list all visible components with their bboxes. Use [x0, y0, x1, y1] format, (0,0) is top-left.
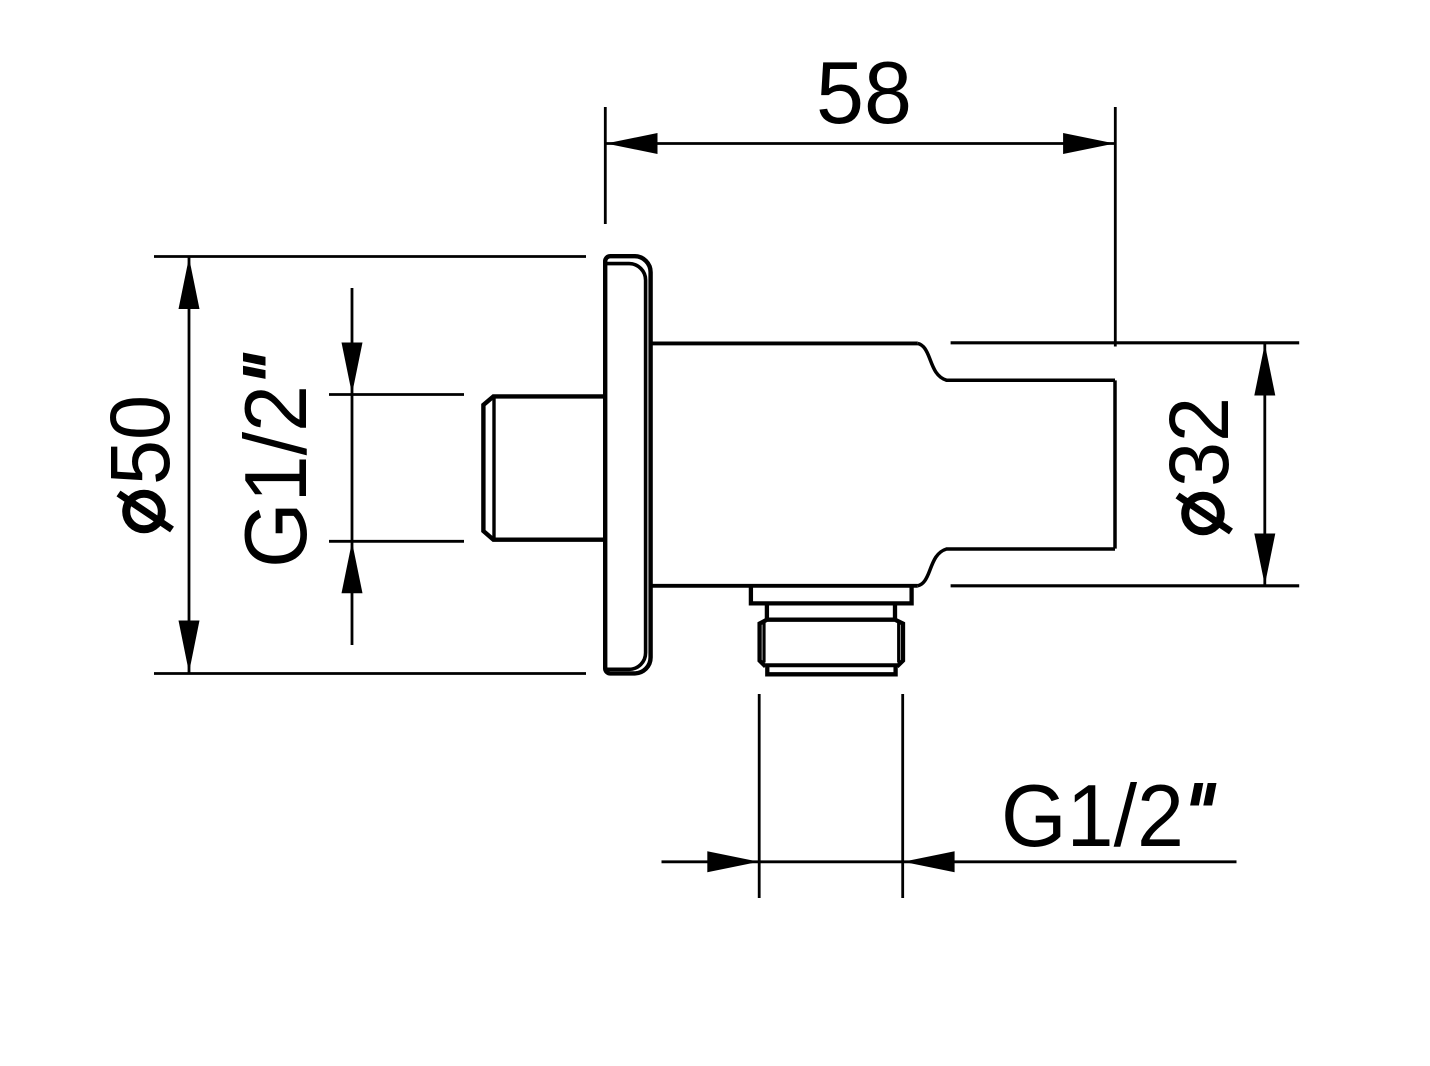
dim dia50 extension line top — [154, 255, 586, 258]
dim G1/2 bottom label — [1001, 766, 1217, 865]
dim 58 extension line left — [604, 107, 607, 224]
dim 58 extension line right — [1114, 107, 1117, 347]
dim G1/2 left dimension line — [351, 288, 354, 645]
neck bottom S-curve and line — [918, 549, 1115, 586]
dim dia32 top arrowhead — [1254, 344, 1275, 396]
neck top S-curve and line — [918, 343, 1115, 380]
dim G1/2 bottom dimension line — [662, 860, 1237, 863]
bottom thread minor-diameter lines — [764, 622, 899, 663]
dim 58 right arrowhead — [1063, 133, 1115, 154]
holder cup top edge / dia32 extension — [951, 341, 1300, 344]
svg-text:50: 50 — [93, 395, 187, 485]
dim G1/2 left label — [226, 353, 325, 569]
bottom thread outline — [760, 620, 903, 667]
dim 58 left arrowhead — [606, 133, 658, 154]
dim dia50 dimension line — [188, 257, 191, 673]
wall flange outer outline — [605, 256, 650, 673]
bottom thread chamfer line — [766, 663, 898, 667]
dim G1/2 left lower arrowhead — [342, 542, 363, 594]
dim dia50 label — [93, 395, 187, 530]
bottom outlet neck — [767, 603, 895, 619]
body top edge — [651, 341, 918, 345]
left inlet stub inner edge — [492, 396, 495, 539]
body bottom edge — [651, 584, 918, 588]
dim dia32 bottom arrowhead — [1254, 534, 1275, 586]
svg-text:58: 58 — [816, 43, 912, 142]
svg-text:G1/2: G1/2 — [1001, 766, 1184, 865]
dim dia50 extension line bottom — [154, 672, 586, 675]
dim G1/2 bottom right arrowhead — [903, 851, 955, 872]
dim dia32 dimension line — [1263, 344, 1266, 586]
bottom outlet flange — [751, 586, 912, 604]
dim G1/2 bottom extension line left — [758, 694, 761, 898]
dim 58 dimension line — [605, 142, 1115, 145]
dim G1/2 bottom left arrowhead — [707, 851, 759, 872]
holder rim face — [1113, 380, 1117, 548]
left inlet stub outline — [483, 396, 605, 539]
dim G1/2 bottom extension line right — [901, 694, 904, 898]
dim dia50 bottom arrowhead — [179, 621, 200, 673]
wall flange inner contour — [605, 264, 645, 670]
svg-text:G1/2: G1/2 — [226, 385, 325, 568]
svg-text:32: 32 — [1152, 397, 1246, 487]
dim G1/2 left extension line top — [329, 393, 464, 396]
dim G1/2 left extension line bottom — [329, 540, 464, 543]
dim dia50 top arrowhead — [179, 258, 200, 310]
holder cup bottom edge / dia32 extension — [951, 584, 1300, 587]
dim dia32 label — [1152, 397, 1246, 532]
bottom thread end cap — [767, 665, 895, 674]
dim G1/2 left upper arrowhead — [342, 343, 363, 395]
